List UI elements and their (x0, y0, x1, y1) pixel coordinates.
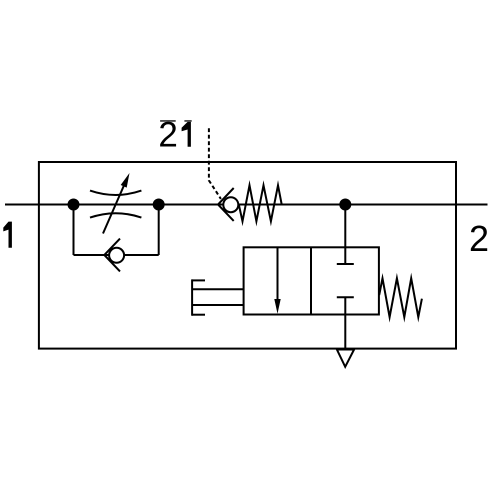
spring S1 (pilot check valve) (239, 185, 282, 221)
wire: main flow line 1-2 (5, 204, 488, 206)
valve U1 right cell blocked port (top T) (337, 263, 354, 265)
enclosure (valve body outline) (39, 162, 456, 349)
node: junction on line 2 above valve (340, 200, 350, 210)
pilot actuator stem (192, 289, 244, 305)
port label 1 (3, 222, 12, 248)
valve U1 position divider (310, 247, 312, 314)
wire: exhaust line down from valve (344, 297, 346, 348)
node: junction left of flow control (69, 200, 79, 210)
check valve V1 (bypass, ball) (109, 248, 124, 263)
wire: bypass loop left vertical (73, 205, 75, 256)
valve U1: 2/2-way valve body (244, 247, 379, 314)
wire: pilot signal dashed line from 21 (209, 128, 221, 199)
node: junction right of flow control (154, 200, 164, 210)
spring S2 (valve return spring) (379, 278, 422, 317)
pilot check valve V2 seat (218, 188, 234, 221)
pilot port label 21 (with overline) (158, 116, 191, 155)
valve U1 right cell blocked port (bottom T) (337, 296, 354, 298)
svg-text:2: 2 (469, 218, 489, 259)
valve U1 left cell flow arrow (274, 247, 280, 313)
check valve V1 seat (104, 239, 120, 272)
wire: pilot tap from junction down into valve (344, 205, 346, 265)
exhaust outlet triangle (337, 350, 354, 367)
pilot check valve V2 (on main line, ball) (223, 197, 238, 212)
flow control valve (adjustable throttle) (90, 173, 141, 234)
wire: bypass loop bottom (74, 254, 159, 256)
pilot actuator (plunger) bracket (192, 279, 205, 315)
wire: bypass loop right vertical (158, 205, 160, 256)
